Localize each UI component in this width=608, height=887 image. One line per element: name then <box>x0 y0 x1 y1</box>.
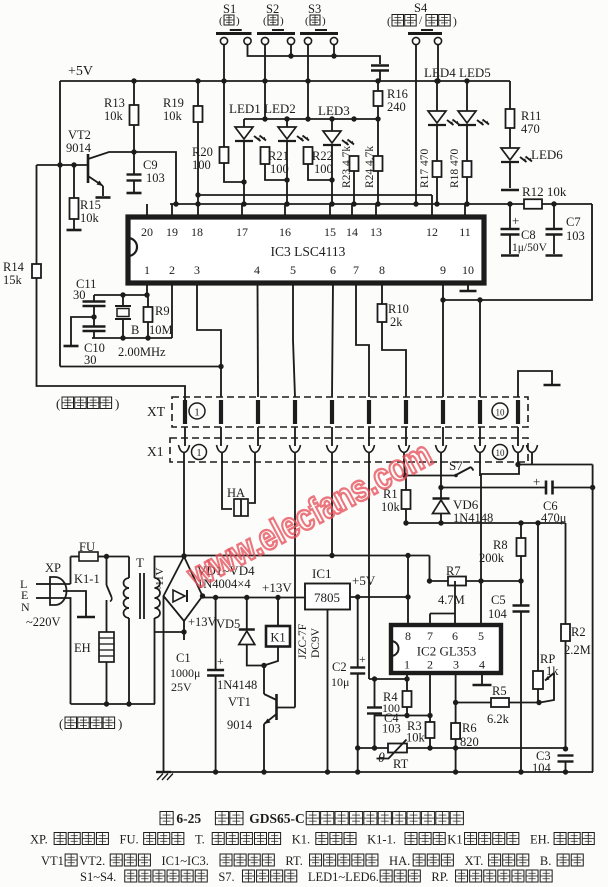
svg-text:S3: S3 <box>308 2 321 16</box>
wire w2 bus <box>170 201 592 206</box>
wire w1 pin18 row <box>195 192 432 216</box>
wire w2 right drop <box>440 204 592 397</box>
switch S3 <box>300 2 338 45</box>
wire switch common <box>248 44 381 64</box>
plug XP <box>20 561 67 614</box>
svg-text:GDS65-C: GDS65-C <box>249 811 305 826</box>
svg-text:DC9V: DC9V <box>310 627 322 658</box>
svg-text:3: 3 <box>194 263 200 277</box>
wire pin5 to XT <box>293 283 295 397</box>
svg-text:R2: R2 <box>571 625 586 639</box>
ground C7 <box>546 254 563 257</box>
svg-text:K1: K1 <box>447 833 462 847</box>
transformer T <box>107 555 185 704</box>
svg-text:12: 12 <box>426 225 438 239</box>
svg-text:IC2 GL353: IC2 GL353 <box>417 644 477 659</box>
wire R3 top bus <box>375 713 433 718</box>
svg-text:R19: R19 <box>163 96 184 110</box>
svg-text:4: 4 <box>479 658 485 672</box>
wire 13V rail <box>200 593 305 600</box>
wire pin4 to XT <box>257 283 260 397</box>
ground symbol main <box>156 772 173 780</box>
svg-text:B: B <box>131 323 139 337</box>
svg-text:JZC-7F: JZC-7F <box>297 624 309 659</box>
wire top right bus <box>518 465 595 491</box>
ground R15 <box>67 229 82 232</box>
svg-text:240: 240 <box>387 100 406 114</box>
wire X1-5 drop <box>329 462 334 558</box>
LED4 and R17 <box>419 78 459 206</box>
ground VT2 emitter <box>96 196 111 199</box>
svg-text:9: 9 <box>440 263 446 277</box>
svg-text:C7: C7 <box>566 215 581 229</box>
svg-text:1: 1 <box>196 448 201 459</box>
svg-text:17: 17 <box>236 225 248 239</box>
wire N down <box>50 598 71 704</box>
wire lid 5V feed <box>184 553 430 597</box>
ground pin10 <box>460 283 477 291</box>
svg-text:R11: R11 <box>521 109 541 123</box>
heater EH <box>74 632 114 707</box>
IC chip IC3 LSC4113 <box>128 217 484 283</box>
svg-text:S2: S2 <box>266 2 279 16</box>
svg-text:EH.: EH. <box>530 833 550 847</box>
label diode 1N4148 <box>217 678 257 692</box>
LED3 <box>318 103 354 207</box>
svg-text:C1: C1 <box>176 651 191 665</box>
svg-text:): ) <box>115 396 119 411</box>
resistor R24 <box>364 146 383 188</box>
label +13V main <box>262 580 292 595</box>
wire ground rail <box>164 769 594 774</box>
svg-text:): ) <box>453 16 457 28</box>
svg-text:+: + <box>533 474 540 489</box>
svg-text:IC3 LSC4113: IC3 LSC4113 <box>271 244 346 259</box>
wire +5V rail <box>60 81 510 367</box>
svg-text:10k: 10k <box>80 211 100 225</box>
svg-text:R16: R16 <box>387 87 408 101</box>
connector X1 terminal block <box>170 438 538 462</box>
svg-text:2k: 2k <box>390 315 403 329</box>
svg-text:HA.: HA. <box>389 854 410 868</box>
label XT <box>147 404 166 419</box>
svg-text:R24 4.7k: R24 4.7k <box>364 146 376 188</box>
ground crystal <box>64 345 79 348</box>
switch K1-1 contact <box>74 554 112 632</box>
svg-text:R20: R20 <box>192 145 213 159</box>
ground XT10 link <box>518 371 561 397</box>
wire osc bottom <box>92 283 172 341</box>
resistor R6 <box>451 703 479 773</box>
svg-text:16: 16 <box>279 225 291 239</box>
svg-text:100: 100 <box>192 158 211 172</box>
wire C9 node link <box>134 152 176 204</box>
LED5 and R18 <box>449 78 489 206</box>
svg-text:1N4148: 1N4148 <box>217 678 257 692</box>
wire pin6 to XT <box>332 283 333 397</box>
resistor R15 <box>70 165 101 229</box>
resistor R9 <box>144 295 173 338</box>
label S3 tang <box>305 15 326 27</box>
svg-text:8: 8 <box>405 629 411 643</box>
svg-text:IC1: IC1 <box>312 566 332 581</box>
svg-text:1: 1 <box>404 658 410 672</box>
svg-text:R7: R7 <box>446 564 461 578</box>
resistor R2 <box>561 523 591 752</box>
svg-text:LED4 LED5: LED4 LED5 <box>424 65 491 80</box>
caption figure 6-25 <box>160 811 463 826</box>
svg-text:104: 104 <box>488 607 508 621</box>
svg-text:10k: 10k <box>104 109 124 123</box>
svg-text:1000μ: 1000μ <box>170 666 200 680</box>
capacitor C9 <box>127 152 165 192</box>
svg-text:K1.: K1. <box>292 833 310 847</box>
svg-text:X1: X1 <box>147 444 164 459</box>
svg-text:R17 470: R17 470 <box>419 148 431 188</box>
resistor R22 <box>304 147 335 183</box>
wire pin9 to XT <box>442 283 444 397</box>
svg-text:S1~S4.: S1~S4. <box>80 870 116 884</box>
svg-text:VT1: VT1 <box>228 695 251 709</box>
svg-text:K1: K1 <box>270 631 285 645</box>
wire X1-8 drop <box>440 462 442 488</box>
transistor VT1 <box>227 666 295 773</box>
wire pin3 stub <box>455 673 457 703</box>
legend row 2 <box>41 854 583 868</box>
wire XT to X1 stubs <box>185 427 518 446</box>
wire pin1 stub <box>404 673 409 682</box>
svg-text:200k: 200k <box>479 551 505 565</box>
svg-text:): ) <box>118 716 122 731</box>
svg-text:30: 30 <box>73 288 86 302</box>
svg-text:(: ( <box>59 716 63 731</box>
buzzer HA <box>222 462 255 516</box>
svg-text:6.2k: 6.2k <box>487 712 510 726</box>
resistor R11 <box>506 109 542 148</box>
wire pin8 stub <box>407 597 409 625</box>
svg-text:): ) <box>236 15 240 27</box>
wire R23 R24 to bus <box>351 171 380 207</box>
label S2 zhou <box>263 15 284 27</box>
resistor R23 <box>341 146 359 188</box>
capacitor C8 <box>501 204 548 254</box>
svg-text:LED1~LED6.: LED1~LED6. <box>308 870 379 884</box>
svg-text:4: 4 <box>254 263 260 277</box>
svg-text:XT: XT <box>147 404 166 419</box>
ground C9 <box>127 192 142 195</box>
resistor R1 <box>381 476 411 526</box>
potentiometer RP <box>533 523 559 703</box>
svg-text:5: 5 <box>478 629 484 643</box>
label crystal frequency <box>118 345 166 359</box>
svg-text:K1-1.: K1-1. <box>367 833 396 847</box>
resistor R4 <box>382 679 412 718</box>
diode VD6 <box>433 488 494 526</box>
resistor R21 <box>261 147 290 183</box>
svg-text:1: 1 <box>194 407 200 419</box>
svg-text:LED6: LED6 <box>531 147 563 162</box>
wire 5V rail <box>350 594 411 599</box>
capacitor C3 <box>532 749 574 775</box>
svg-text:2: 2 <box>427 658 433 672</box>
svg-text:LED2: LED2 <box>264 101 296 116</box>
wire S4 right drop <box>435 44 440 84</box>
label relay type <box>297 624 322 659</box>
switch S2 <box>257 2 295 45</box>
svg-text:6: 6 <box>330 263 336 277</box>
switch S4 <box>408 1 442 45</box>
svg-text:(: ( <box>387 16 391 28</box>
svg-text:R5: R5 <box>492 684 507 698</box>
svg-text:13: 13 <box>370 225 382 239</box>
svg-text:XP.: XP. <box>30 833 48 847</box>
svg-text:5: 5 <box>290 263 296 277</box>
ground pin4 <box>473 673 492 685</box>
svg-text:T: T <box>136 555 144 570</box>
svg-text:R8: R8 <box>493 538 508 552</box>
svg-text:S4: S4 <box>414 1 428 15</box>
svg-text:R14: R14 <box>3 260 25 274</box>
ground C8 <box>501 254 519 257</box>
wire E ground <box>63 591 95 617</box>
svg-text:2: 2 <box>169 263 175 277</box>
svg-text:103: 103 <box>382 722 401 736</box>
watermark <box>180 433 438 596</box>
transistor VT2 <box>37 128 137 196</box>
power label +5V <box>68 64 93 79</box>
label S4 baowen <box>387 15 457 29</box>
resistor R5 <box>453 684 542 726</box>
svg-text:XP: XP <box>45 561 61 575</box>
resistor R8 <box>479 523 526 581</box>
resistor R13 <box>104 78 139 152</box>
wire X1-4 to VT1 base <box>294 462 296 708</box>
svg-text:9014: 9014 <box>66 141 92 155</box>
capacitor C6 <box>438 474 592 525</box>
svg-text:C8: C8 <box>521 228 536 242</box>
label 220V <box>26 615 61 629</box>
diode VD5 <box>216 598 264 666</box>
LED6 <box>501 147 563 188</box>
wire pin3 to XT <box>197 283 221 397</box>
LED2 <box>264 101 309 207</box>
relay K1 <box>261 598 290 669</box>
svg-text:19: 19 <box>166 225 178 239</box>
svg-text:6: 6 <box>452 629 458 643</box>
svg-text:10: 10 <box>496 408 506 418</box>
svg-text:R6: R6 <box>462 721 477 735</box>
wire S1 left drop <box>221 44 226 84</box>
svg-text:10k: 10k <box>406 731 426 745</box>
wire LED feed <box>244 116 381 156</box>
wire S7 to pin5 <box>480 476 482 624</box>
svg-text:2.2M: 2.2M <box>564 643 591 657</box>
svg-text:LED3: LED3 <box>318 103 350 118</box>
capacitor C7 <box>546 204 585 254</box>
svg-text:100: 100 <box>314 162 333 176</box>
svg-text:S1: S1 <box>223 2 236 16</box>
svg-text:8: 8 <box>379 263 385 277</box>
svg-text:470: 470 <box>521 122 540 136</box>
resistor R19 <box>163 78 203 216</box>
label LED4 LED5 <box>424 65 491 80</box>
svg-text:100: 100 <box>270 162 289 176</box>
svg-text:+13V: +13V <box>262 580 292 595</box>
crystal B <box>115 295 139 338</box>
svg-text:+: + <box>512 213 519 228</box>
svg-text:+13V: +13V <box>188 615 217 629</box>
svg-text:(: ( <box>263 15 267 27</box>
svg-text:θ: θ <box>378 751 385 766</box>
thermistor RT <box>358 740 566 772</box>
svg-text:4.7M: 4.7M <box>438 593 465 607</box>
IC regulator IC1 7805 <box>305 566 350 772</box>
svg-text:FU.: FU. <box>120 833 139 847</box>
svg-text:9014: 9014 <box>227 718 253 732</box>
legend row 1 <box>30 833 594 847</box>
svg-text:1: 1 <box>144 263 150 277</box>
svg-text:7: 7 <box>427 629 433 643</box>
wire X1-7 drop <box>404 462 405 476</box>
switch S1 <box>216 2 252 45</box>
wire pins 6 7 tie <box>430 581 455 625</box>
capacitor C11 <box>73 277 106 326</box>
rectifier bridge VD1-VD4 <box>164 557 256 641</box>
svg-text:10k: 10k <box>163 109 183 123</box>
svg-text:T.: T. <box>195 833 205 847</box>
svg-text:103: 103 <box>146 171 165 185</box>
svg-text:10: 10 <box>462 263 474 277</box>
svg-text:7: 7 <box>353 263 359 277</box>
IC op-amp IC2 GL353 <box>391 625 501 673</box>
svg-text:RT: RT <box>393 757 409 771</box>
fuse FU <box>71 540 107 584</box>
wire mains bottom <box>71 701 156 706</box>
svg-text:103: 103 <box>566 229 585 243</box>
svg-text:15k: 15k <box>3 273 23 287</box>
svg-text:K1-1: K1-1 <box>74 572 100 586</box>
svg-text:7805: 7805 <box>314 590 340 605</box>
svg-text:3: 3 <box>453 658 459 672</box>
svg-text:10μ: 10μ <box>331 675 349 689</box>
svg-text:N: N <box>21 600 30 614</box>
svg-text:XT.: XT. <box>464 854 483 868</box>
wire S2 left drop <box>262 44 267 122</box>
svg-text:25V: 25V <box>171 680 192 694</box>
svg-text:VD6: VD6 <box>453 497 479 512</box>
svg-text:1μ/50V: 1μ/50V <box>512 242 548 254</box>
svg-text:LED1: LED1 <box>229 101 261 116</box>
capacitor C2 <box>331 597 366 772</box>
resistor R3 <box>406 716 435 751</box>
capacitor C1 <box>170 598 224 773</box>
svg-text:C2: C2 <box>332 660 347 674</box>
capacitor C10 <box>83 327 106 368</box>
wire pin7 to XT <box>356 283 369 397</box>
svg-text:~220V: ~220V <box>26 615 61 629</box>
wire bridge minus <box>163 596 165 772</box>
svg-text:820: 820 <box>460 735 479 749</box>
svg-text:(: ( <box>305 15 309 27</box>
svg-text:R13: R13 <box>104 96 125 110</box>
svg-text:R15: R15 <box>80 198 101 212</box>
svg-text:): ) <box>280 15 284 27</box>
label lid circuit <box>56 396 119 411</box>
ground LED6 <box>501 189 519 192</box>
svg-text:S7: S7 <box>449 458 463 473</box>
label +5V out <box>352 573 376 588</box>
svg-text:14: 14 <box>346 225 358 239</box>
wire pin2 stub <box>429 673 431 716</box>
capacitor switch filter <box>371 66 389 82</box>
svg-text:R10: R10 <box>388 302 409 316</box>
svg-text:(: ( <box>56 396 60 411</box>
connector XT terminal block <box>172 397 528 427</box>
svg-text:RP.: RP. <box>431 870 448 884</box>
svg-text:1k: 1k <box>546 664 559 678</box>
svg-text:IC1~IC3.: IC1~IC3. <box>162 854 209 868</box>
svg-text:11: 11 <box>459 225 471 239</box>
svg-text:B.: B. <box>540 854 551 868</box>
svg-text:2.00MHz: 2.00MHz <box>118 345 166 359</box>
svg-text:10: 10 <box>496 448 506 458</box>
svg-text:18: 18 <box>191 225 203 239</box>
svg-text:VT2.: VT2. <box>79 854 105 868</box>
label X1 <box>147 444 164 459</box>
svg-text:C5: C5 <box>491 593 506 607</box>
svg-text:C9: C9 <box>143 158 158 172</box>
svg-text:R22: R22 <box>312 149 333 163</box>
svg-text:15: 15 <box>324 225 336 239</box>
svg-text:R9: R9 <box>155 304 170 318</box>
resistor R10 <box>378 283 409 397</box>
svg-text:100: 100 <box>382 701 400 715</box>
wire X1-1 to bridge <box>181 462 186 559</box>
svg-text:+: + <box>217 654 224 668</box>
wire node A bus <box>406 520 566 525</box>
svg-text:+5V: +5V <box>68 64 93 79</box>
wire +5V to XT2 <box>60 364 224 369</box>
resistor R20 <box>192 81 247 185</box>
wire S4 left drop <box>413 44 418 207</box>
wire S3 left drop <box>305 44 310 122</box>
svg-text:R12 10k: R12 10k <box>522 184 567 199</box>
svg-text:(: ( <box>219 15 223 27</box>
svg-text:VT1: VT1 <box>41 854 64 868</box>
legend row 3 <box>80 870 552 884</box>
label S1 fan <box>219 15 240 27</box>
svg-text:R21: R21 <box>268 149 289 163</box>
svg-text:EH: EH <box>74 641 91 655</box>
svg-text:VT2: VT2 <box>68 128 91 142</box>
svg-text:10M: 10M <box>149 323 173 337</box>
wire osc ground tap <box>71 314 97 345</box>
switch S7 <box>402 458 519 478</box>
svg-text:6-25: 6-25 <box>176 811 201 826</box>
svg-text:~11V: ~11V <box>154 567 166 592</box>
wire X1-6 drop <box>368 462 370 679</box>
label +13V aux <box>188 615 217 629</box>
svg-text:R18 470: R18 470 <box>449 148 461 188</box>
LED1 <box>229 101 266 207</box>
capacitor C5 <box>488 581 530 772</box>
wire X1-9 to S7 <box>479 462 481 476</box>
svg-text:RT.: RT. <box>285 854 302 868</box>
svg-text:): ) <box>322 15 326 27</box>
svg-text:+5V: +5V <box>352 573 376 588</box>
resistor R12 <box>522 184 567 209</box>
capacitor C4 <box>367 679 401 751</box>
